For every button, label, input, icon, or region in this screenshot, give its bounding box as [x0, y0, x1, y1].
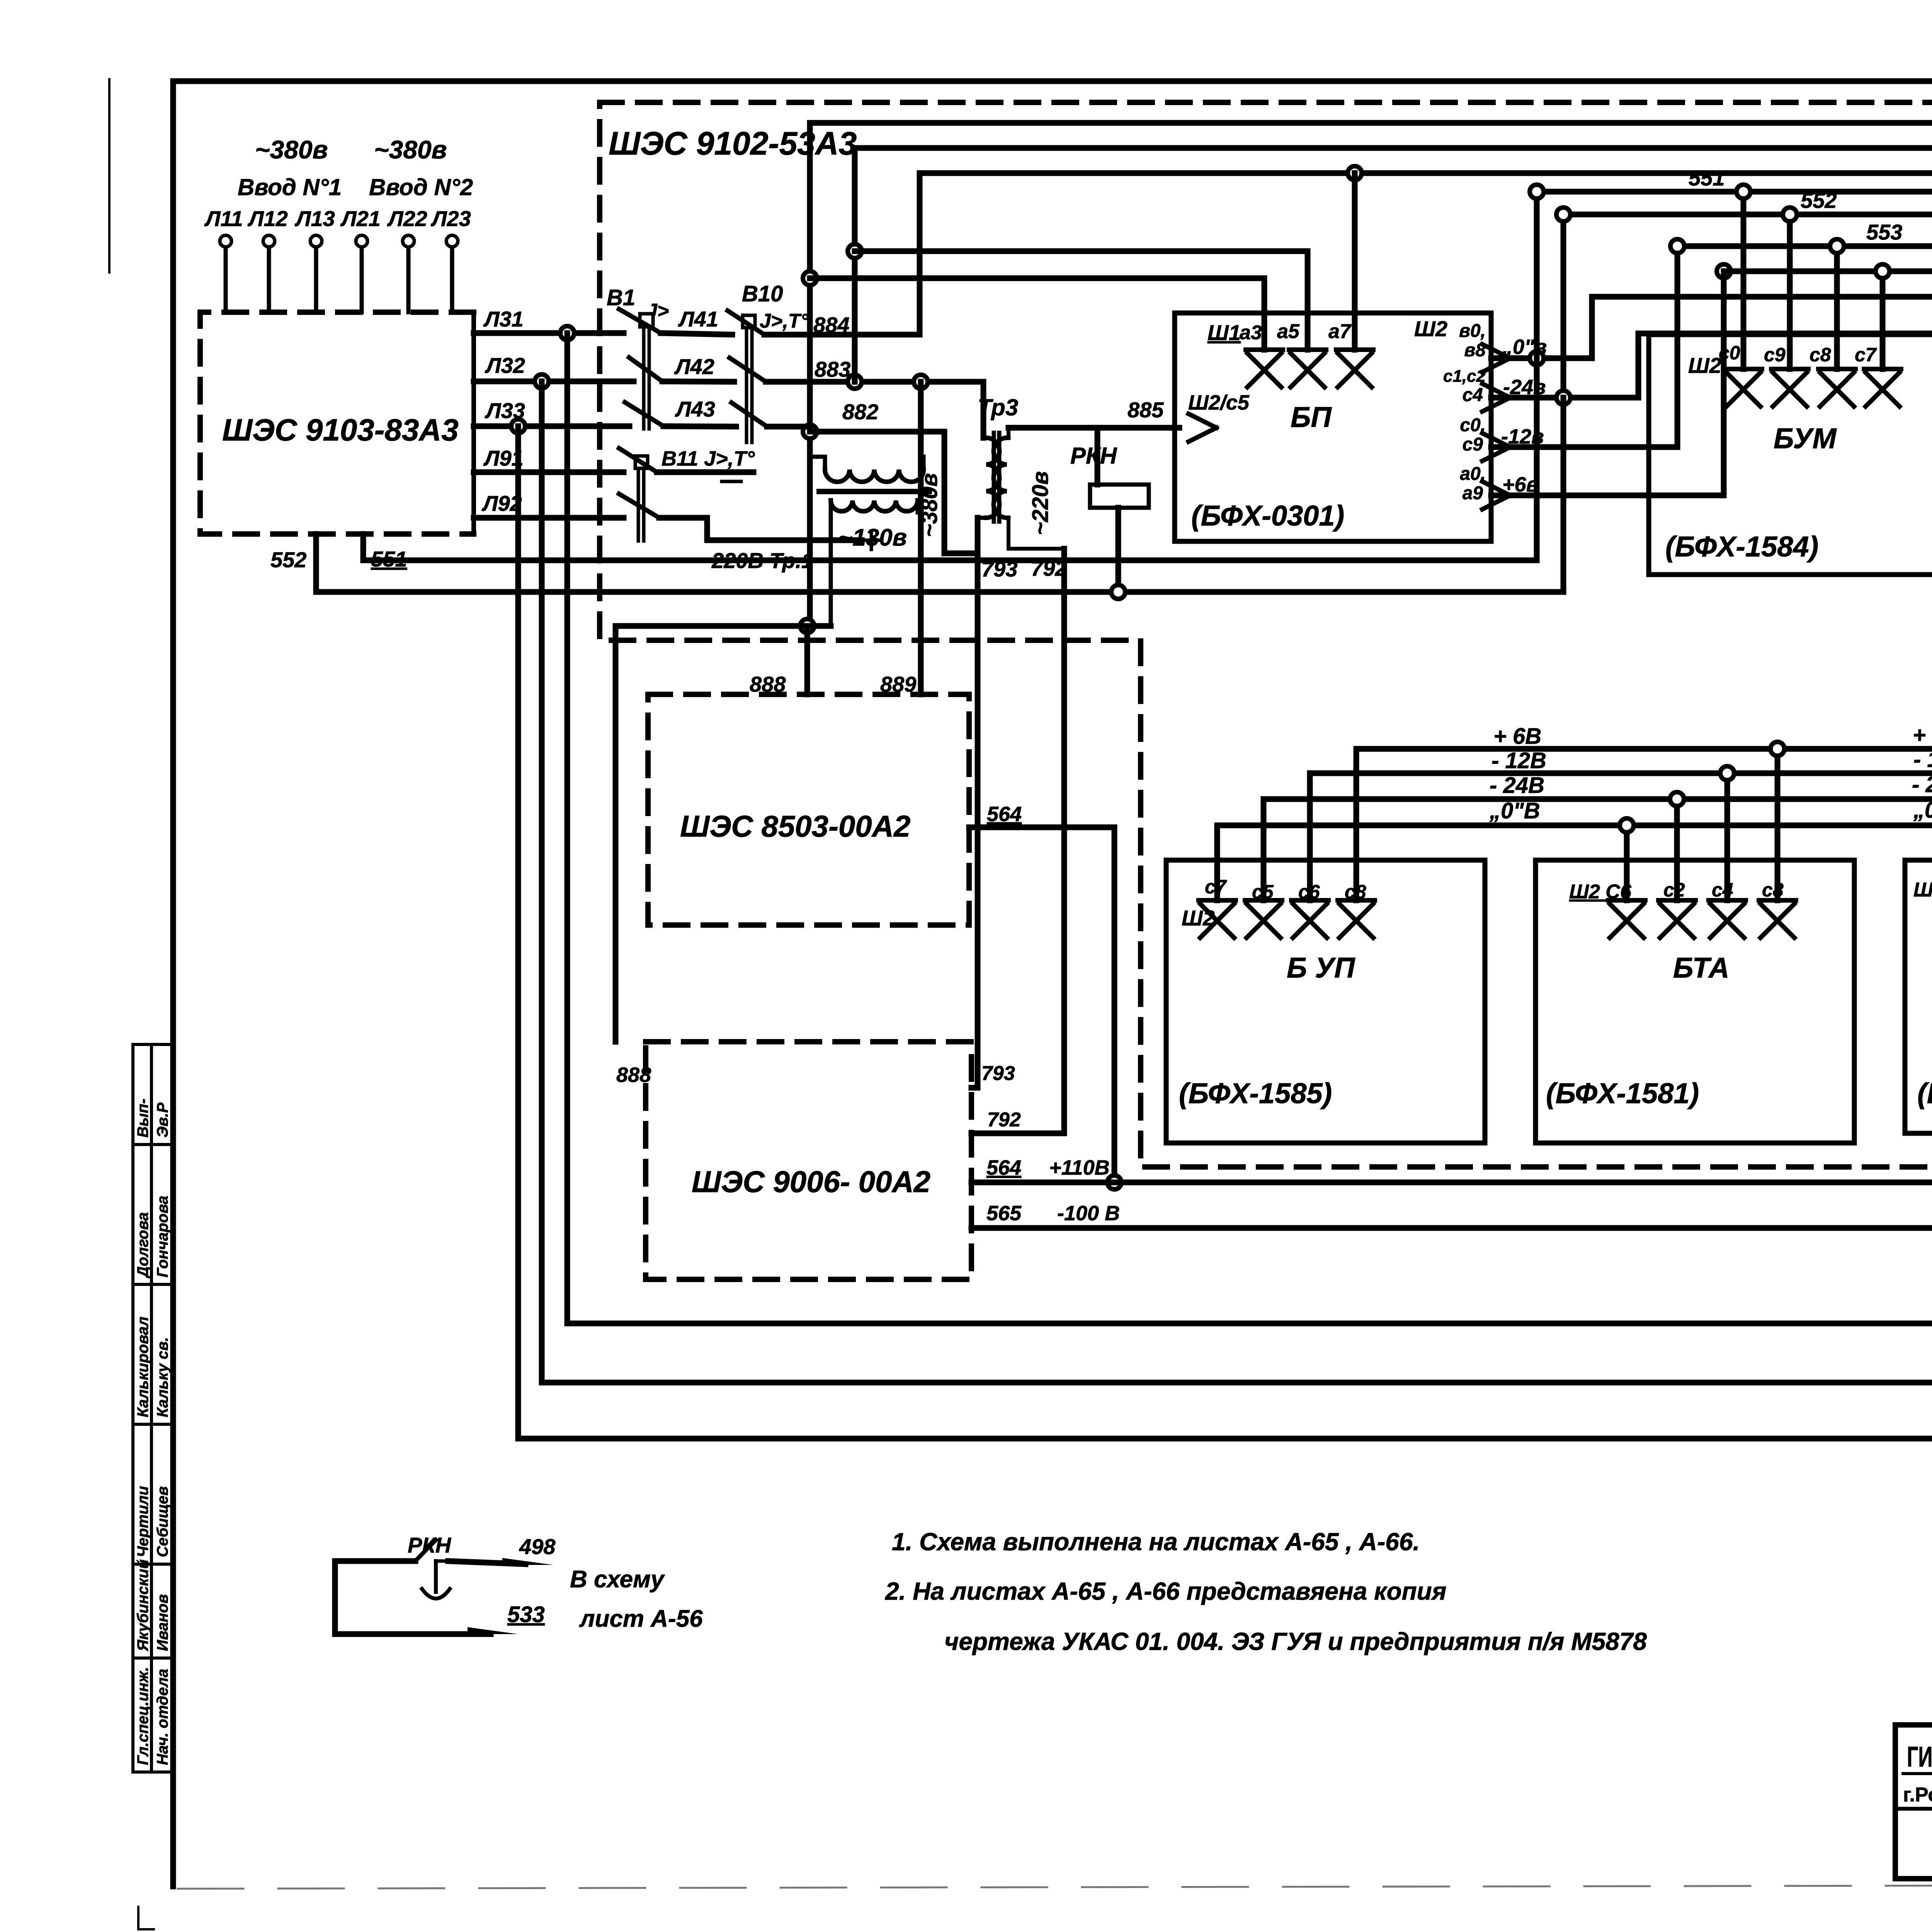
terminal Л23 [430, 206, 471, 312]
wire 551 riser [1534, 192, 1540, 560]
wire 883 riser (x=2212) [852, 148, 858, 382]
svg-text:БТА: БТА [1673, 952, 1729, 984]
svg-text:Калькировал: Калькировал [134, 1316, 151, 1417]
svg-text:Л23: Л23 [430, 206, 471, 231]
svg-text:J>,T°: J>,T° [760, 310, 809, 332]
svg-text:чертежа УКАС 01. 004. ЭЗ Г: чертежа УКАС 01. 004. ЭЗ ГУЯ и предприят… [944, 1628, 1647, 1655]
svg-text:ШЭС 9006- 00А2: ШЭС 9006- 00А2 [692, 1165, 930, 1199]
wire а3 riser [810, 278, 1264, 350]
svg-text:2. На листах А-65 , А-66: 2. На листах А-65 , А-66 представяена ко… [885, 1577, 1446, 1605]
wire from В11 upper pole (minus) [657, 472, 753, 481]
svg-text:~380в: ~380в [374, 135, 447, 164]
wire а7 riser [1352, 173, 1358, 350]
breaker В11 (2-pole, J>,T°) [619, 447, 755, 541]
svg-text:Л43: Л43 [675, 397, 715, 421]
svg-text:В11 J>,T°: В11 J>,T° [662, 447, 755, 470]
svg-text:а9: а9 [1463, 483, 1483, 503]
svg-text:564: 564 [986, 1156, 1021, 1179]
stamp column rotated signatures [134, 1099, 171, 1765]
pin БТА с4 riser [1709, 773, 1746, 938]
wire 889 (883 junction to ШЭС 8503) [880, 382, 921, 696]
pin БУП с7 [1199, 900, 1236, 938]
svg-text:Л13: Л13 [294, 206, 335, 231]
wire 792 [971, 549, 1067, 1133]
node с9/552 [1783, 207, 1797, 221]
notes text [885, 1528, 1647, 1655]
svg-text:+ 6В: + 6В [1913, 723, 1932, 748]
pin БУП с6 [1291, 900, 1328, 938]
wire 565 (-100В) [971, 1202, 1932, 1228]
svg-text:(БФХ-0301): (БФХ-0301) [1191, 500, 1344, 532]
svg-text:552: 552 [1801, 188, 1837, 213]
svg-text:Якубинский: Якубинский [134, 1560, 151, 1651]
svg-text:с7: с7 [1855, 344, 1877, 366]
wire 551 from ШЭС 9103 [363, 534, 1537, 571]
block БП (БФХ-0301) [1175, 313, 1491, 541]
svg-text:888: 888 [616, 1063, 651, 1087]
node 564 junction [1107, 1175, 1121, 1189]
svg-text:793: 793 [981, 557, 1017, 581]
wire Л91 [474, 446, 624, 472]
svg-text:Ш1: Ш1 [1207, 320, 1241, 345]
node 551 left end [1530, 185, 1544, 199]
svg-text:Нач. отдела: Нач. отдела [154, 1669, 171, 1765]
pin 8503:564 [969, 803, 1114, 1182]
svg-text:~130в: ~130в [838, 524, 907, 551]
svg-text:(БФХ-1582): (БФХ-1582) [1917, 1077, 1932, 1109]
bus -24В [1264, 773, 1932, 900]
node 552/-24в junction [1556, 391, 1570, 405]
wire 883 [766, 357, 983, 438]
svg-text:(БФХ-1581): (БФХ-1581) [1546, 1077, 1699, 1109]
svg-text:+110В: +110В [1049, 1156, 1110, 1179]
svg-text:а7: а7 [1328, 320, 1352, 343]
svg-text:а5: а5 [1277, 320, 1300, 343]
svg-text:а3: а3 [1240, 321, 1262, 344]
node с2/-24В [1670, 792, 1684, 806]
svg-text:в0,: в0, [1459, 321, 1486, 341]
svg-text:ШЭС 9103-83А3: ШЭС 9103-83А3 [222, 413, 459, 447]
stamp column table [133, 1044, 172, 1772]
transformer Тр3 [917, 395, 1064, 549]
labels ~380в Ввод №1 / №2 [238, 135, 473, 200]
breaker В10 (3-pole, J>,T°) [728, 281, 809, 442]
svg-text:Ш2/с5: Ш2/с5 [1188, 391, 1250, 414]
svg-text:- 24В: - 24В [1912, 772, 1932, 797]
pin БТА с6 riser [1608, 825, 1645, 938]
bus +6В [1356, 717, 1932, 900]
svg-text:Долгова: Долгова [134, 1212, 151, 1279]
relay РКН contact to sheet А-56 [335, 1533, 703, 1634]
pin Ш2:а0/а9 (+6в) [1460, 464, 1539, 509]
wire top bus 1 (884 net, to в7) [810, 123, 1932, 1038]
node 552 left end [1556, 207, 1570, 221]
svg-text:Л21: Л21 [340, 206, 381, 231]
pin Ш2:с1,с2/с4 (-24в) [1443, 367, 1546, 412]
svg-text:498: 498 [519, 1534, 556, 1559]
wire 564 (+110В) [971, 1156, 1932, 1182]
node 882 junction [803, 425, 817, 439]
node 883/889 junction [914, 375, 928, 389]
svg-text:553: 553 [1866, 220, 1902, 244]
title org ГИПРОСТРОЙДОРМАШ [1895, 1740, 1932, 1882]
wire 552 riser [1561, 398, 1566, 592]
svg-text:Л11: Л11 [204, 206, 243, 231]
wire 552 from ШЭС 9103 [270, 534, 1563, 592]
wire 888 horizontal [616, 623, 831, 629]
node Л33 junction [511, 419, 525, 433]
pin БУМ с8 [1818, 246, 1855, 406]
wire Л43 [663, 397, 736, 427]
wire Л31 descent to sheet A-65 box [567, 333, 1932, 1323]
svg-text:ШЭС 9102-53А3: ШЭС 9102-53А3 [609, 125, 857, 162]
svg-text:с9: с9 [1463, 434, 1483, 455]
svg-text:Эв.Р: Эв.Р [154, 1102, 171, 1138]
pin Ш1:а3 [1246, 350, 1283, 387]
node 888 junction [800, 619, 814, 633]
svg-text:551: 551 [1689, 166, 1725, 190]
svg-text:с9: с9 [1764, 344, 1786, 366]
svg-text:565: 565 [986, 1202, 1022, 1225]
wire а5 riser [855, 251, 1308, 350]
terminal Л12 [247, 206, 288, 312]
block БПА (БФХ-1582) [1905, 860, 1932, 1133]
terminal Л11 [204, 206, 243, 312]
node с0/551 [1736, 185, 1750, 199]
node Л31 junction [560, 326, 574, 340]
pin Ш1:а7 [1336, 350, 1373, 387]
pin БУП с5 [1245, 900, 1282, 938]
node 554 left end [1717, 264, 1731, 278]
wire 884 riser and drop (x=2096) [807, 123, 813, 626]
bus labels (second set) [1912, 723, 1932, 823]
wire 885 [1009, 398, 1179, 428]
terminal Л21 [340, 206, 381, 312]
wire Л32 [474, 353, 634, 381]
wire Л33 descent to sheet A-65 box [518, 426, 1932, 1439]
svg-text:Кальку св.: Кальку св. [154, 1337, 171, 1417]
block БУП (БФХ-1585) [1166, 860, 1485, 1143]
svg-text:Ввод N°2: Ввод N°2 [369, 174, 473, 200]
svg-text:В10: В10 [742, 281, 783, 306]
svg-text:В1: В1 [607, 285, 635, 310]
terminal Л22 [387, 206, 427, 312]
svg-text:Ш2: Ш2 [1414, 316, 1447, 341]
svg-text:Л42: Л42 [674, 354, 714, 379]
svg-text:- 24В: - 24В [1490, 773, 1544, 798]
svg-text:Ш2: Ш2 [1688, 353, 1721, 378]
svg-text:793: 793 [981, 1062, 1015, 1085]
node с8/+6В [1770, 742, 1784, 756]
svg-text:г.Ростов-на-Дону 1976г.: г.Ростов-на-Дону 1976г. [1903, 1784, 1932, 1806]
svg-text:Тр3: Тр3 [978, 395, 1018, 420]
wire from В11 lower pole (plus, 220В Тр.1) [659, 518, 881, 573]
svg-text:с7: с7 [1205, 876, 1227, 898]
svg-text:Б УП: Б УП [1287, 952, 1355, 984]
svg-text:В схему: В схему [570, 1566, 665, 1593]
svg-text:Себищев: Себищев [154, 1486, 171, 1557]
pin БТА с8 riser [1759, 749, 1796, 938]
svg-text:220В Тр.1: 220В Тр.1 [711, 548, 813, 573]
pin Ш2:в0/в8 („0"в) [1459, 321, 1547, 372]
pin Ш2/с5 (885 input) [1188, 391, 1250, 442]
wire 551 top [1537, 160, 1932, 223]
node с4/-12В [1720, 766, 1734, 780]
svg-text:- 12в: - 12в [1913, 747, 1932, 772]
svg-text:+ 6В: + 6В [1493, 724, 1541, 749]
node с8/553 [1830, 239, 1844, 253]
svg-text:с4: с4 [1463, 385, 1483, 405]
svg-text:(БФХ-1584): (БФХ-1584) [1665, 531, 1818, 563]
node с7/554 [1876, 264, 1889, 278]
pin БУМ с7 [1864, 271, 1901, 406]
svg-text:883: 883 [815, 357, 850, 381]
cabinet ШЭС 9103-83А3 dashed box [200, 312, 474, 534]
svg-text:885: 885 [1128, 398, 1164, 422]
node 884/а3 branch [803, 271, 817, 285]
svg-text:Ш1 а2: Ш1 а2 [1913, 879, 1932, 901]
svg-text:Л12: Л12 [247, 206, 288, 231]
svg-text:Гл.спец.инж.: Гл.спец.инж. [134, 1667, 151, 1765]
block БТА (БФХ-1581) [1536, 860, 1854, 1143]
svg-text:- 12В: - 12В [1492, 748, 1546, 773]
svg-text:ГИПРОСТРОЙДОРМАШ: ГИПРОСТРОЙДОРМАШ [1907, 1740, 1932, 1773]
svg-text:Л31: Л31 [483, 307, 524, 331]
svg-text:с0: с0 [1719, 342, 1740, 364]
wire 888 (to ШЭС 8503) [750, 626, 807, 696]
svg-text:(БФХ-1585): (БФХ-1585) [1179, 1077, 1332, 1109]
node 883/riser junction [848, 375, 862, 389]
pin БУМ с0 [1725, 192, 1762, 406]
svg-text:888: 888 [750, 672, 786, 696]
svg-text:с8: с8 [1810, 344, 1831, 366]
scan paper edge mark [109, 79, 154, 1929]
cabinet ШЭС 9102-53А3 dashed boundary [600, 102, 1932, 1167]
svg-text:Ввод N°1: Ввод N°1 [238, 174, 342, 200]
svg-text:~380в: ~380в [917, 473, 942, 537]
svg-text:Л32: Л32 [485, 353, 525, 378]
wire -12в / 553 net [1491, 220, 1932, 773]
svg-text:889: 889 [880, 672, 916, 696]
svg-text:Чертили: Чертили [134, 1486, 151, 1557]
pin Ш1:а5 [1289, 350, 1326, 387]
pin Ш2:с0/с9 (-12в) [1460, 415, 1544, 461]
svg-text:Вып-: Вып- [134, 1099, 151, 1138]
wire top bus 2 (883 net, to в8) [855, 148, 1932, 986]
svg-text:Л41: Л41 [678, 307, 718, 331]
cabinet ШЭС 9006-00А2 dashed box [646, 1042, 971, 1279]
pin БТА с2 riser [1658, 799, 1696, 938]
terminal Л13 [294, 206, 335, 312]
svg-text:Л22: Л22 [387, 206, 427, 231]
svg-text:РКН: РКН [1070, 443, 1117, 469]
svg-text:-100 В: -100 В [1057, 1202, 1120, 1225]
wire Л41 [661, 307, 732, 335]
node 672 branch [848, 244, 862, 258]
wire top bus 3 (882 net, to в9) [920, 173, 1932, 943]
node 551/0в junction [1530, 351, 1544, 365]
svg-text:„0"В: „0"В [1913, 798, 1932, 823]
wire „0"в / 551 net [1491, 297, 1932, 717]
svg-text:БП: БП [1291, 401, 1332, 433]
svg-text:Иванов: Иванов [154, 1594, 171, 1651]
wire Л33 [474, 398, 629, 426]
wire Л31 [474, 307, 624, 333]
svg-text:792: 792 [987, 1109, 1021, 1131]
wire Л32 descent to sheet A-65 box [542, 381, 1932, 1383]
wire 888 (to ШЭС 9006) [616, 626, 651, 1087]
block БУМ (БФХ-1584) [1649, 335, 1932, 575]
svg-text:ШЭС 8503-00А2: ШЭС 8503-00А2 [680, 809, 910, 843]
svg-text:лист А-56: лист А-56 [579, 1605, 703, 1632]
svg-text:1. Схема выполнена на лис: 1. Схема выполнена на листах А-65 , А-66… [892, 1528, 1420, 1556]
svg-text:БУМ: БУМ [1774, 422, 1837, 454]
breaker В1 (3-pole) [607, 285, 669, 429]
svg-text:882: 882 [842, 400, 878, 424]
pin БУМ с9 [1771, 214, 1808, 406]
transformer Тр1 [810, 457, 929, 626]
svg-text:~380в: ~380в [255, 135, 328, 164]
node с6/0В [1620, 818, 1634, 832]
node 553 left end [1670, 239, 1684, 253]
svg-text:552: 552 [270, 548, 306, 572]
bus „0"В [1217, 798, 1932, 900]
svg-text:533: 533 [507, 1602, 545, 1627]
svg-text:~220в: ~220в [1028, 471, 1053, 535]
bus -12В [1310, 748, 1932, 900]
wire +6в / 554 net [1491, 185, 1932, 717]
wire Л92 [474, 491, 624, 518]
relay РКН coil [1070, 428, 1149, 592]
svg-text:564: 564 [987, 803, 1022, 826]
svg-text:Гончарова: Гончарова [154, 1196, 171, 1277]
wire Л42 [662, 354, 734, 382]
svg-text:„0"В: „0"В [1489, 798, 1540, 823]
node а7 riser junction [1348, 166, 1362, 180]
cabinet ШЭС 8503-00А2 dashed box [648, 694, 969, 925]
node РКН to 552 [1111, 585, 1125, 599]
node Л32 junction [535, 374, 549, 388]
wire 793 [971, 518, 1017, 1088]
wire -24в / 552 net [1491, 214, 1932, 799]
title block [1895, 1725, 1932, 1879]
wire 882 [767, 400, 978, 553]
pin БУП с8 [1338, 900, 1375, 938]
svg-text:с1,с2: с1,с2 [1443, 367, 1486, 386]
wire 884 [764, 173, 920, 337]
